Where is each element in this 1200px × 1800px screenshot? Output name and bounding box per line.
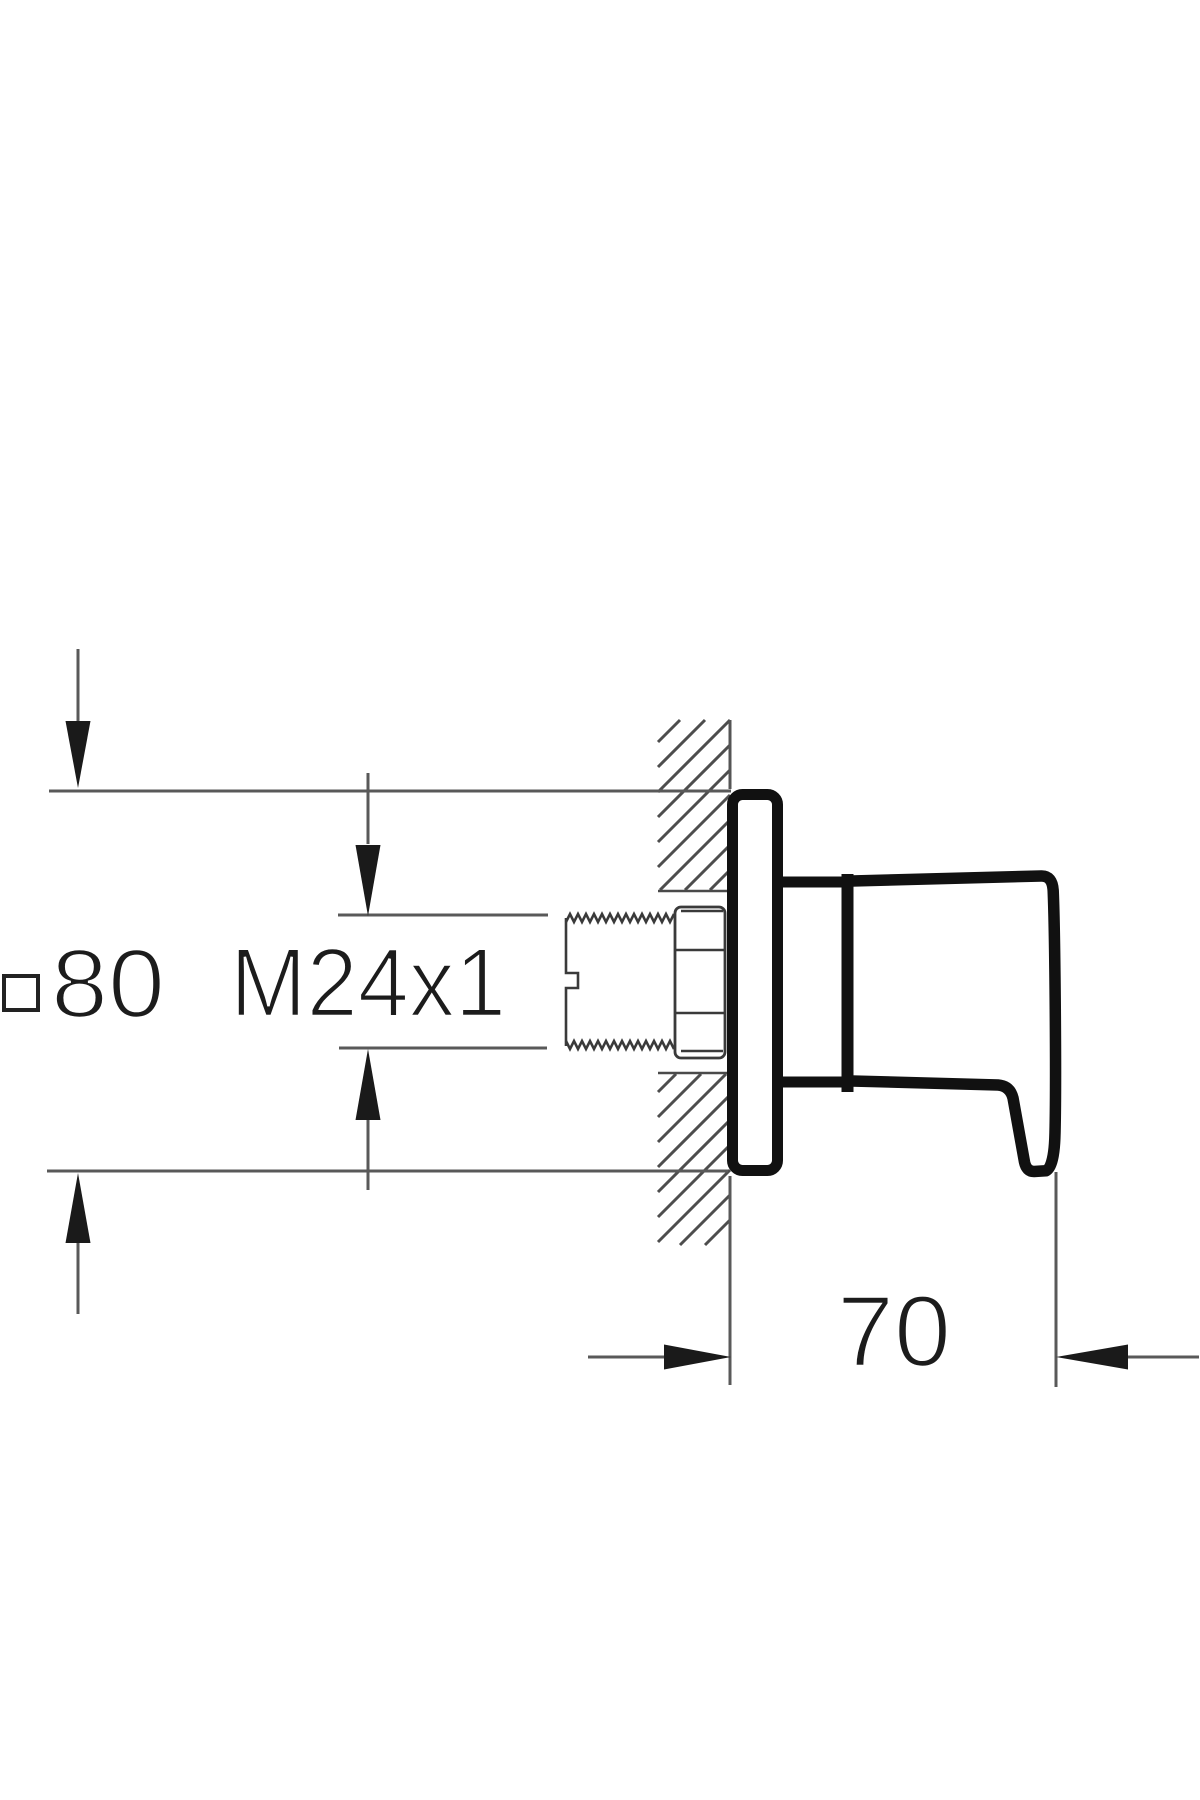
svg-text:80: 80 <box>51 929 165 1038</box>
svg-text:M24x1: M24x1 <box>230 928 506 1037</box>
svg-text:70: 70 <box>837 1276 951 1388</box>
